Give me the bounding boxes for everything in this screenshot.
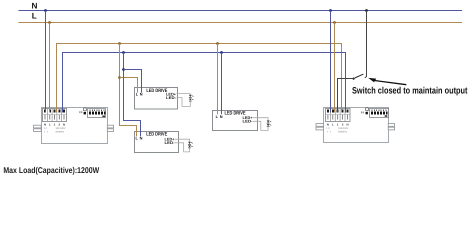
dimmer A terminal block [43, 109, 67, 122]
svg-text:LED DRIVE: LED DRIVE [146, 88, 168, 94]
dimmer A DIP switch [88, 109, 106, 118]
wire switch feed [366, 11, 368, 77]
wire U2 LED return loop [175, 143, 190, 152]
dimmer module A (left) [42, 108, 108, 144]
node N tap switch S1 [365, 9, 368, 12]
dimmer B terminal labels [327, 122, 349, 126]
wire U3 LED+ lead [253, 118, 268, 120]
wire L drop to dimmer A [49, 23, 51, 113]
node dimmed L branch driver U1 [118, 76, 121, 79]
wire N drop to dimmer B [330, 11, 332, 113]
wire U2 LED+ lead [175, 139, 190, 141]
dimmer A terminal screws [44, 110, 65, 120]
LED D1 [189, 95, 194, 98]
node dimmed N branch driver U1 [122, 68, 125, 71]
wire dimmed N drop to driver U2 [124, 53, 141, 137]
wire N supply line [19, 10, 463, 12]
svg-text:Switch closed to maintain outp: Switch closed to maintain output [352, 85, 468, 95]
node dimmed L bus to middle drivers [118, 42, 121, 45]
switch S1 contact [353, 78, 355, 80]
svg-text:L: L [49, 122, 51, 126]
dimmer A ratings text [44, 127, 66, 134]
wire dimmed N bus [63, 53, 346, 113]
switch S1 blade [355, 74, 364, 78]
LED D3 [188, 142, 193, 145]
dimmer B indicator [361, 108, 369, 115]
svg-text:50/60Hz: 50/60Hz [56, 131, 65, 134]
LED driver U2 [135, 132, 179, 153]
svg-text:L: L [32, 12, 37, 21]
annotation arrow to switch [368, 78, 406, 85]
svg-text:100-240V: 100-240V [338, 127, 348, 130]
svg-text:L: L [332, 122, 334, 126]
node N tap dimmer A [44, 9, 47, 12]
svg-text:100-240V: 100-240V [56, 127, 66, 130]
wire dimmed L bus [57, 44, 342, 113]
dimmer A terminal labels [44, 122, 65, 126]
wire L supply line [19, 22, 463, 24]
svg-text:N: N [346, 122, 348, 126]
svg-text:⏚ ⏚: ⏚ ⏚ [44, 131, 49, 134]
wire dimmed L branch to driver U1 [120, 78, 138, 93]
wire dimmed L drop to driver U2 [120, 44, 137, 137]
wire U3 LED return loop [253, 121, 268, 130]
svg-text:N: N [63, 122, 65, 126]
svg-text:50/60Hz: 50/60Hz [338, 131, 347, 134]
dimmer A mounting ear left [34, 125, 42, 131]
svg-text:LED-: LED- [165, 140, 176, 145]
LED D6 [267, 124, 272, 127]
svg-text:N: N [327, 122, 329, 126]
wire dimmed N branch to driver U1 [124, 70, 142, 93]
wire switch return to dimmer B [338, 79, 354, 113]
node L tap dimmer A [48, 21, 51, 24]
svg-text:⏚ ⏚: ⏚ ⏚ [326, 131, 331, 134]
svg-text:LED-: LED- [243, 119, 254, 124]
svg-text:N: N [32, 2, 38, 11]
wire dimmed N drop to driver U3 [221, 53, 223, 115]
dimmer B mounting ear left [316, 124, 324, 130]
wire L drop to dimmer B [334, 23, 336, 113]
wire U1 LED return loop [176, 98, 190, 107]
wire N drop to dimmer A [45, 11, 47, 113]
dimmer B mounting ear right [388, 124, 394, 130]
LED D5 [267, 120, 272, 123]
LED D2 [189, 99, 194, 102]
LED driver U3 [213, 111, 258, 131]
svg-text:LED-: LED- [166, 95, 177, 100]
svg-text:Max Load(Capacitive):1200W: Max Load(Capacitive):1200W [3, 165, 99, 175]
dimmer B ratings text [326, 127, 348, 134]
node L tap dimmer B [333, 21, 336, 24]
wire dimmed L drop to driver U3 [217, 44, 219, 115]
node dimmed N tap driver U3 [220, 51, 223, 54]
dimmer B terminal block [325, 109, 350, 122]
wire U1 LED+ lead [176, 94, 190, 95]
svg-text:N: N [44, 122, 46, 126]
LED driver U1 [135, 88, 178, 110]
dimmer A indicator [79, 108, 86, 115]
node N tap dimmer B [329, 9, 332, 12]
svg-text:N: N [220, 114, 223, 119]
LED D4 [188, 145, 193, 148]
node dimmed N bus to middle drivers [122, 51, 125, 54]
dimmer B terminal screws [327, 110, 349, 120]
dimmer A mounting ear right [107, 125, 113, 131]
node dimmed L tap driver U3 [216, 42, 219, 45]
dimmer module B (right) [324, 108, 389, 143]
dimmer B DIP switch [370, 109, 389, 118]
